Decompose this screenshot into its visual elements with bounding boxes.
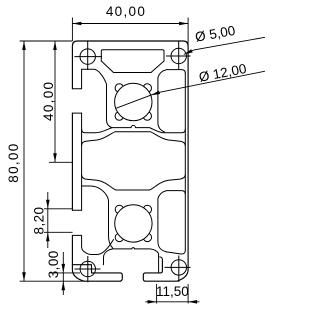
svg-text:80,00: 80,00 [6, 142, 21, 182]
slot2 top edge [82, 186, 113, 248]
dim 40,00 vertical bottom extension [49, 161, 72, 163]
hole D5 top-right [171, 48, 186, 63]
slot1 upper lip cap [72, 88, 81, 90]
arrow leader D12 [151, 91, 160, 96]
mid chamber top edge [82, 132, 186, 146]
top cavity bottom edge with notch [114, 72, 152, 74]
left inner face upper [81, 69, 83, 88]
dim 80,00 dimension line [23, 41, 25, 281]
arrow 11.50 left [148, 300, 157, 304]
leader D5 [184, 37, 265, 54]
SE channel mouth lower edge [160, 257, 163, 260]
hole D5 bottom-right [171, 260, 186, 275]
slot1 lower lip cap [72, 112, 81, 114]
right inner face [184, 73, 186, 250]
arrow 40v bottom [53, 153, 57, 162]
web line L1 slot1 bottom to box1 bottom [82, 125, 186, 132]
arrow 80 top [22, 41, 26, 50]
rosette2 core circle [115, 205, 152, 242]
slot2 bottom edge to SW channel outer [82, 236, 114, 255]
dim 40,00 vertical dimension line [54, 41, 56, 162]
dim 80,00 top extension line [20, 40, 73, 42]
outer bottom left foot [72, 235, 120, 281]
arrow 8.20 lower [46, 232, 50, 241]
rosette1 core circle D12 [115, 83, 152, 120]
arrow 40v top [53, 41, 57, 50]
leader D12 [116, 71, 265, 108]
dim 8,20 dimension line [47, 192, 49, 248]
top cavity left chamfer [101, 61, 113, 73]
svg-text:8,20: 8,20 [31, 207, 46, 235]
arrow 40 top left [72, 22, 81, 26]
top cavity [101, 50, 164, 61]
top cavity right chamfer [151, 61, 164, 73]
slot2 lower lip cap [72, 234, 81, 236]
dim 8,20 extension lines [44, 209, 73, 233]
outer left wall mid segment [71, 113, 73, 210]
box1 right chamber upper [158, 70, 185, 132]
dim 40,00 top extension lines [72, 18, 188, 47]
svg-text:40,00: 40,00 [106, 4, 146, 19]
arrow 40 top right [179, 22, 188, 26]
svg-text:11,50: 11,50 [156, 284, 189, 299]
left inner face middle [81, 113, 83, 210]
arrow 3.00 lower [62, 281, 66, 290]
arrow 11.50 right [188, 300, 197, 304]
rosette2 core bumps [115, 205, 151, 241]
arrow 3.00 upper [62, 264, 66, 273]
SW channel inner line and under-rosette2 plateau [104, 248, 159, 273]
svg-text:Ø 5,00: Ø 5,00 [194, 23, 237, 45]
svg-text:40,00: 40,00 [41, 81, 56, 121]
dim 11,50 extension lines [157, 284, 189, 304]
arrow 8.20 upper [46, 200, 50, 209]
arrow 80 bottom [22, 272, 26, 281]
dim 3,00 dimension line [62, 252, 64, 295]
hole D5 top-left [80, 49, 95, 64]
dim 3,00 extension line [49, 272, 80, 274]
outer profile outline right and top [72, 41, 188, 281]
mid chamber bottom edge [82, 175, 186, 190]
dim 40,00 top dimension line [72, 23, 188, 25]
box2 bottom edge [167, 250, 186, 254]
hole D5 bottom-left [80, 261, 95, 276]
slot2 upper lip cap [72, 209, 81, 211]
dim 11,50 dimension line [145, 301, 199, 303]
dim 80,00 and 3,00 bottom extension line [20, 280, 85, 282]
svg-text:Ø 12,00: Ø 12,00 [198, 61, 248, 85]
box2 right chamber lower [158, 191, 185, 252]
rosette1 core bumps [115, 84, 151, 120]
arrow leader D5 [184, 49, 193, 54]
svg-text:3,00: 3,00 [46, 250, 61, 278]
slot1 top edge [82, 69, 112, 127]
foot left top and step [72, 265, 122, 282]
